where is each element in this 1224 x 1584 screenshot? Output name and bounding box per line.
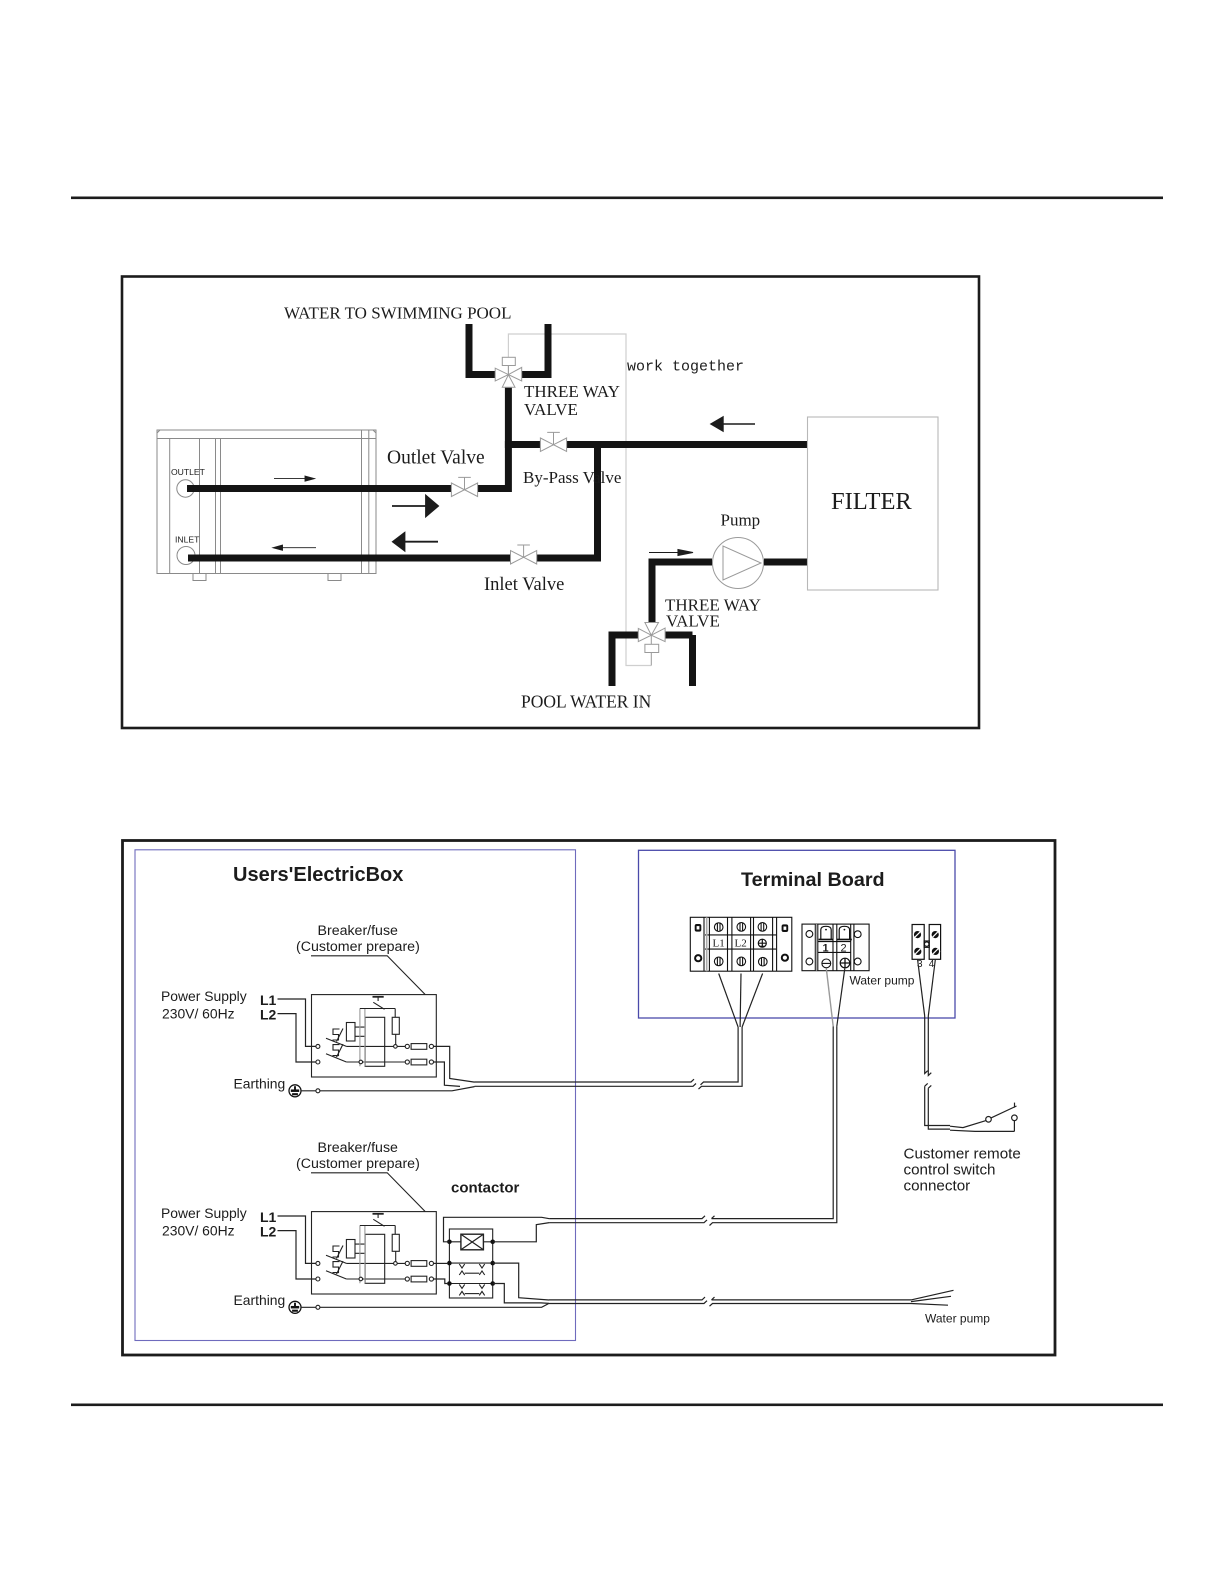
- svg-text:control switch: control switch: [904, 1162, 996, 1179]
- three-way valve (bottom): [638, 623, 665, 666]
- cable B: contactor coil to TB2: [549, 969, 844, 1226]
- TB1 screw L2 bottom: [737, 957, 746, 966]
- TB1 mounting bolt top-left: [695, 924, 702, 932]
- breaker 1 output L1 to cable: [434, 1046, 475, 1082]
- TB3 center link: [924, 941, 929, 947]
- plumbing diagram frame: [122, 277, 979, 729]
- big flow arrow left (inlet line): [393, 533, 438, 550]
- svg-text:Breaker/fuse: Breaker/fuse: [318, 923, 399, 939]
- flow arrow right (pump suction): [649, 550, 693, 556]
- TB1 gray partition shading: [706, 917, 708, 971]
- breaker 1 (customer breaker/fuse, upper): [312, 995, 437, 1077]
- TB3 screws: [913, 930, 939, 955]
- L2 wire 2: [278, 1231, 316, 1279]
- flow arrow right (inside unit, outlet): [274, 476, 315, 481]
- breaker 2 output L2 to contactor: [434, 1279, 448, 1284]
- earthing symbol 2: [289, 1301, 301, 1313]
- svg-text:(Customer prepare): (Customer prepare): [296, 1156, 420, 1172]
- svg-text:WATER TO SWIMMING POOL: WATER TO SWIMMING POOL: [284, 304, 511, 323]
- work together group box: [508, 334, 651, 666]
- contactor main contact row 1: [449, 1263, 492, 1275]
- svg-text:By-Pass Valve: By-Pass Valve: [523, 468, 621, 487]
- TB1 screw PE bottom: [759, 957, 768, 966]
- contactor body: [449, 1229, 492, 1298]
- svg-text:FILTER: FILTER: [831, 488, 912, 515]
- svg-text:connector: connector: [904, 1178, 971, 1195]
- by-pass valve symbol: [540, 432, 566, 451]
- contactor coil leads: [449, 1241, 492, 1243]
- contactor junction dots: [447, 1240, 495, 1286]
- return pipe from filter: [505, 441, 808, 448]
- svg-text:Inlet Valve: Inlet Valve: [484, 575, 564, 595]
- pipe riser to pool (left leg): [469, 324, 495, 375]
- flow arrow left (inside unit, inlet): [273, 545, 316, 550]
- inlet valve symbol: [511, 545, 537, 564]
- remote switch contact 1: [986, 1117, 992, 1123]
- svg-text:L2: L2: [260, 1224, 277, 1240]
- earthing symbol 1: [289, 1085, 301, 1097]
- remote switch wire to first contact: [950, 1121, 986, 1128]
- leader line to breaker 2: [311, 1173, 425, 1212]
- inlet pipe (heat pump to inlet valve): [188, 555, 510, 562]
- svg-text:VALVE: VALVE: [666, 612, 720, 631]
- svg-text:Earthing: Earthing: [234, 1292, 286, 1308]
- svg-text:Power Supply: Power Supply: [161, 988, 247, 1004]
- svg-text:Power Supply: Power Supply: [161, 1205, 247, 1221]
- cable A: power supply 1 to TB1: [475, 974, 763, 1090]
- svg-text:POOL WATER IN: POOL WATER IN: [521, 692, 652, 712]
- terminal block TB3 (remote) left strip: [912, 925, 924, 960]
- leader line to breaker 1: [311, 956, 425, 995]
- TB1 mounting bolt top-right: [782, 924, 789, 932]
- outlet pipe (heat pump to outlet valve): [187, 485, 451, 492]
- svg-text:THREE WAY: THREE WAY: [524, 382, 620, 401]
- TB1 mounting hole bottom-left: [695, 955, 701, 961]
- contactor coil wire to cable B (left/top conductor): [444, 1217, 550, 1242]
- earthing wire 1: [301, 1087, 475, 1091]
- svg-text:230V/ 60Hz: 230V/ 60Hz: [162, 1006, 235, 1022]
- svg-text:L2: L2: [735, 938, 747, 950]
- contactor main contact row 2: [449, 1284, 492, 1296]
- pump suction pipe from bottom three-way valve: [649, 562, 713, 622]
- svg-text:Pump: Pump: [721, 511, 761, 530]
- svg-text:Terminal Board: Terminal Board: [741, 869, 885, 891]
- pipe riser to pool (right leg): [522, 324, 548, 375]
- svg-text:work together: work together: [627, 359, 744, 376]
- svg-text:VALVE: VALVE: [524, 400, 578, 419]
- TB1 earth symbol: [758, 939, 766, 947]
- svg-text:contactor: contactor: [451, 1180, 520, 1197]
- svg-text:Breaker/fuse: Breaker/fuse: [318, 1140, 399, 1156]
- contact row 2 wire to water pump cable: [493, 1284, 549, 1304]
- Terminal Board boundary: [639, 850, 956, 1018]
- terminal block TB3 right strip: [929, 925, 940, 960]
- page bottom rule: [71, 1404, 1163, 1407]
- flow arrow left (return line near filter): [711, 417, 755, 431]
- svg-text:L2: L2: [260, 1007, 277, 1023]
- L1 wire 2: [278, 1216, 316, 1263]
- contact row 1 wire to water pump cable: [493, 1263, 549, 1300]
- earthing wire 2: [301, 1303, 549, 1307]
- pump symbol: [713, 538, 764, 589]
- TB1 mounting hole bottom-right: [782, 955, 788, 961]
- contactor coil (X box): [461, 1234, 484, 1250]
- by-pass down pipe and inlet pipe right segment: [537, 444, 601, 562]
- svg-text:Water pump: Water pump: [850, 974, 915, 988]
- TB2 screw 1: [822, 959, 831, 968]
- svg-text:(Customer prepare): (Customer prepare): [296, 939, 420, 955]
- svg-text:2: 2: [841, 943, 847, 955]
- remote switch contact 2: [1012, 1115, 1018, 1121]
- terminal block TB1 (power in) body: [690, 917, 792, 971]
- svg-text:230V/ 60Hz: 230V/ 60Hz: [162, 1223, 235, 1239]
- pump discharge pipe to filter: [764, 559, 808, 566]
- L2 wire 1: [278, 1014, 316, 1062]
- svg-text:Outlet Valve: Outlet Valve: [387, 448, 485, 469]
- wiring diagram frame: [123, 841, 1056, 1356]
- filter box: [808, 417, 939, 590]
- cable D: TB3 to remote switch: [918, 960, 950, 1129]
- TB1 screw L1 top: [714, 923, 723, 932]
- svg-text:OUTLET: OUTLET: [171, 467, 206, 477]
- svg-text:Users'ElectricBox: Users'ElectricBox: [233, 864, 403, 886]
- svg-text:INLET: INLET: [175, 535, 200, 545]
- remote switch contact 2 tick: [1014, 1103, 1016, 1108]
- svg-text:Water pump: Water pump: [925, 1312, 990, 1326]
- svg-text:1: 1: [823, 943, 829, 955]
- breaker 2 (customer breaker/fuse, lower): [312, 1212, 437, 1294]
- remote switch lever: [991, 1106, 1017, 1118]
- svg-text:L1: L1: [713, 938, 725, 950]
- TB1 screw PE top: [758, 923, 767, 932]
- TB2 screw 2: [840, 958, 850, 968]
- L1 wire 1: [278, 999, 316, 1046]
- breaker 2 output L1 to contactor: [434, 1262, 448, 1264]
- TB2 fuse holder 1: [819, 926, 834, 939]
- svg-text:Customer remote: Customer remote: [904, 1146, 1021, 1163]
- breaker 1 output L2 to cable: [434, 1062, 461, 1086]
- big flow arrow right (outlet line): [392, 496, 438, 516]
- three-way valve (top): [495, 357, 522, 387]
- cable C: contactor contacts to water pump: [549, 1290, 954, 1306]
- outlet valve symbol: [451, 477, 477, 496]
- TB1 screw L2 top: [737, 923, 746, 932]
- terminal block TB2 (water pump) body: [802, 924, 869, 971]
- TB2 mounting holes: [806, 931, 861, 965]
- pool water in left leg: [609, 635, 639, 686]
- heat pump unit body: [157, 430, 376, 581]
- svg-text:Earthing: Earthing: [234, 1076, 286, 1092]
- outlet pipe (valve to riser) and riser to three-way valve: [478, 388, 512, 492]
- Users'ElectricBox boundary: [135, 850, 576, 1341]
- page top rule: [71, 197, 1163, 200]
- contactor coil wire to cable B (right conductor): [493, 1223, 550, 1242]
- TB2 fuse holder 2: [837, 926, 852, 939]
- remote switch return wire: [950, 1121, 1014, 1132]
- TB1 screw L1 bottom: [714, 957, 723, 966]
- pool water in right leg: [665, 635, 692, 686]
- TB2 gray partition shading: [816, 924, 818, 971]
